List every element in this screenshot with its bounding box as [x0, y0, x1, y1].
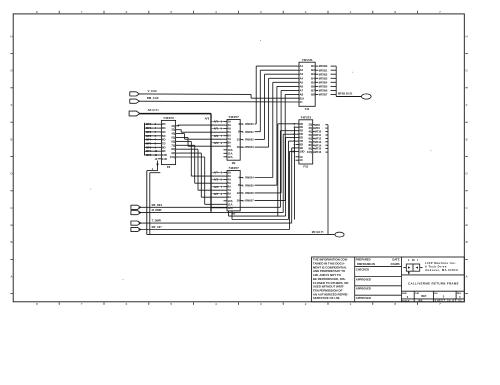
svg-text:16: 16	[237, 199, 241, 203]
svg-text:RM007: RM007	[245, 199, 254, 203]
svg-text:APPROVED: APPROVED	[356, 277, 371, 281]
svg-text:MF1: MF1	[146, 126, 152, 130]
svg-text:SCALE: SCALE	[402, 299, 410, 302]
svg-text:MF GO TI: MF GO TI	[312, 230, 324, 234]
svg-text:A8: A8	[300, 93, 304, 97]
svg-text:MF2B7: MF2B7	[319, 93, 328, 97]
svg-text:RM004: RM004	[245, 176, 254, 180]
svg-text:H: H	[10, 34, 12, 38]
svg-text:10D: 10D	[299, 149, 304, 153]
svg-text:B: B	[466, 240, 468, 244]
svg-text:MF_CE": MF_CE"	[152, 225, 163, 229]
svg-text:SIZE: SIZE	[402, 293, 407, 295]
svg-text:B: B	[10, 240, 12, 244]
svg-text:PREPARED: PREPARED	[356, 258, 371, 262]
svg-text:74F245: 74F245	[302, 58, 313, 62]
svg-text:MF0: MF0	[146, 122, 152, 126]
svg-text:MF3: MF3	[146, 134, 152, 138]
svg-text:DATE: DATE	[392, 258, 399, 262]
svg-text:AF6: AF6	[214, 185, 219, 189]
svg-text:F8: F8	[167, 165, 171, 169]
svg-text:E: E	[10, 137, 12, 141]
svg-text:MF11: MF11	[315, 133, 322, 137]
svg-text:Andover, MA 01810: Andover, MA 01810	[425, 268, 458, 272]
svg-text:AF7: AF7	[214, 192, 219, 196]
svg-text:MF2B4: MF2B4	[319, 80, 328, 84]
svg-text:12A: 12A	[228, 206, 233, 210]
svg-text:N/A: N/A	[419, 299, 423, 302]
svg-text:MF2B6: MF2B6	[319, 89, 328, 93]
svg-text:APPROVED: APPROVED	[356, 287, 371, 291]
svg-text:MF2B2: MF2B2	[319, 72, 328, 76]
svg-text:MF8: MF8	[315, 123, 321, 127]
svg-text:CHECKED: CHECKED	[356, 267, 369, 271]
svg-text:2B: 2B	[232, 161, 236, 165]
svg-text:M_DMR: M_DMR	[152, 208, 162, 212]
svg-text:B8: B8	[311, 93, 315, 97]
svg-text:74F257: 74F257	[228, 166, 239, 170]
svg-text:12: 12	[237, 137, 241, 141]
svg-text:T_DMR: T_DMR	[152, 219, 161, 223]
svg-text:10Q: 10Q	[170, 155, 176, 159]
svg-text:E: E	[466, 137, 468, 141]
svg-text:RM005: RM005	[245, 183, 254, 187]
svg-text:MF16: MF16	[315, 150, 322, 154]
svg-text:MF4: MF4	[146, 138, 152, 142]
svg-text:H: H	[466, 34, 468, 38]
svg-text:RM000: RM000	[245, 122, 254, 126]
svg-text:MF14: MF14	[315, 143, 322, 147]
svg-text:AF1: AF1	[214, 127, 219, 131]
svg-text:AF5: AF5	[214, 178, 219, 182]
svg-text:APPROVED: APPROVED	[356, 296, 371, 300]
svg-text:A: A	[466, 275, 468, 279]
svg-text:10Q: 10Q	[307, 150, 313, 154]
svg-text:CALL/VERME RETURN FRAME: CALL/VERME RETURN FRAME	[408, 281, 459, 285]
svg-text:AF<0:7>: AF<0:7>	[148, 108, 160, 112]
svg-text:MF10: MF10	[315, 130, 322, 134]
svg-text:AF3: AF3	[214, 141, 219, 145]
svg-text:F: F	[466, 103, 468, 107]
svg-text:MF6: MF6	[146, 145, 152, 149]
svg-text:MF2B3: MF2B3	[319, 76, 328, 80]
svg-text:F11: F11	[305, 107, 310, 111]
svg-text:RM002: RM002	[245, 138, 254, 142]
svg-text:MF2B 26-31: MF2B 26-31	[338, 91, 353, 95]
svg-text:AF2: AF2	[214, 134, 219, 138]
svg-text:MF7: MF7	[146, 149, 152, 153]
svg-text:MF2B1: MF2B1	[319, 68, 328, 72]
svg-text:AF4: AF4	[214, 171, 219, 175]
svg-text:A: A	[10, 275, 12, 279]
svg-text:MF2B0: MF2B0	[319, 64, 328, 68]
svg-text:SHEET 36 OF 41: SHEET 36 OF 41	[435, 299, 463, 302]
svg-text:AF8: AF8	[205, 117, 210, 120]
svg-text:MF13: MF13	[315, 140, 322, 144]
svg-text:MF_DE1: MF_DE1	[152, 203, 163, 207]
svg-text:12A: 12A	[228, 155, 233, 159]
svg-text:V_CA0: V_CA0	[148, 89, 157, 93]
svg-text:F: F	[11, 103, 13, 107]
svg-text:16: 16	[237, 145, 241, 149]
svg-text:RM_CA0: RM_CA0	[147, 96, 159, 100]
svg-text:REF: REF	[421, 294, 427, 298]
svg-text:74F373: 74F373	[163, 116, 174, 120]
svg-text:L M I: L M I	[408, 258, 419, 262]
svg-text:RM006: RM006	[245, 191, 254, 195]
svg-text:74F373: 74F373	[301, 115, 312, 119]
svg-text:MF15: MF15	[315, 147, 322, 151]
svg-text:DMFRANKLIN: DMFRANKLIN	[357, 262, 375, 266]
svg-text:F10: F10	[303, 165, 308, 169]
svg-text:MF2: MF2	[146, 130, 152, 134]
svg-text:LISP Machine Inc.: LISP Machine Inc.	[425, 261, 456, 265]
svg-text:MF5: MF5	[146, 141, 152, 145]
svg-text:6 Tech Drive: 6 Tech Drive	[425, 264, 447, 268]
svg-text:MF12: MF12	[315, 137, 322, 141]
svg-text:12: 12	[237, 191, 241, 195]
svg-text:AF0: AF0	[214, 120, 219, 124]
svg-text:MF8: MF8	[146, 153, 152, 157]
svg-text:SENTATIVE OF LMI.: SENTATIVE OF LMI.	[313, 296, 340, 300]
svg-text:MF2B5: MF2B5	[319, 85, 328, 89]
svg-text:74F257: 74F257	[228, 115, 239, 119]
svg-text:CAT.: CAT.	[415, 292, 420, 295]
svg-text:1C: 1C	[299, 158, 303, 162]
svg-text:B19: B19	[300, 97, 305, 100]
svg-text:REV: REV	[457, 293, 462, 295]
svg-text:RM001: RM001	[245, 130, 254, 134]
svg-text:11D: 11D	[162, 157, 167, 161]
svg-text:NO.: NO.	[434, 293, 438, 295]
svg-text:2/19/86: 2/19/86	[391, 262, 400, 266]
svg-text:MF9: MF9	[315, 126, 321, 130]
svg-text:RM003: RM003	[245, 145, 254, 149]
